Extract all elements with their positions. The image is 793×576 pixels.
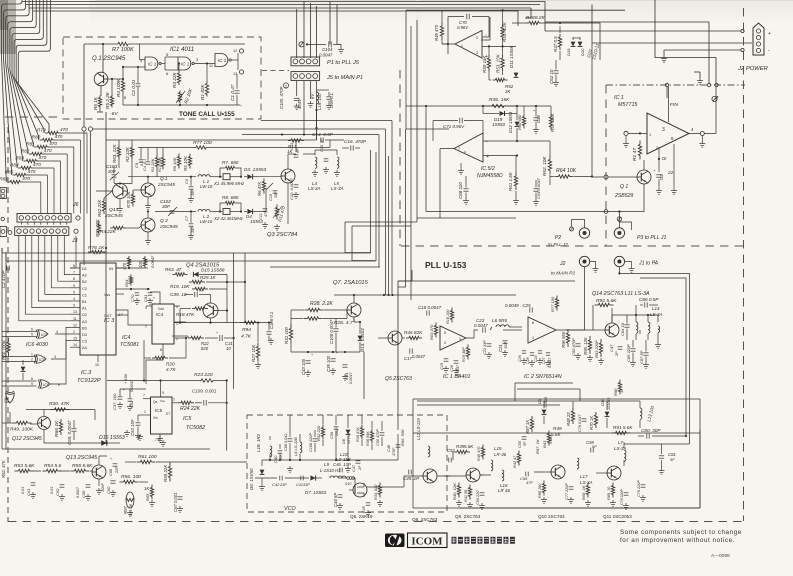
svg-text:C2: C2	[659, 174, 664, 180]
wire q7 emitter	[353, 317, 355, 322]
ground C2	[658, 188, 660, 191]
wire vertical x545	[544, 4, 546, 31]
svg-text:C66: C66	[109, 468, 113, 476]
svg-text:2SC945: 2SC945	[157, 182, 175, 187]
resistor R77 100	[196, 146, 206, 149]
svg-text:L8 LS-11B: L8 LS-11B	[293, 437, 298, 456]
svg-text:1K: 1K	[144, 486, 149, 491]
svg-text:LS-3A: LS-3A	[614, 446, 626, 451]
svg-text:C22 33P: C22 33P	[483, 340, 487, 355]
connector J3	[15, 227, 69, 236]
wire q13 nets	[98, 479, 100, 486]
wire pa out gnd stub	[701, 136, 703, 142]
wire top bus 6b	[316, 6, 318, 58]
wire vertical x531	[525, 8, 531, 18]
svg-text:B2: B2	[82, 279, 87, 284]
svg-text:R18 100: R18 100	[446, 309, 450, 324]
circle on dash x606	[604, 210, 608, 214]
jack J1	[614, 256, 624, 266]
svg-text:IC 1: IC 1	[218, 58, 227, 63]
wire q12 up	[43, 410, 45, 417]
coil L9	[330, 476, 346, 478]
svg-text:470: 470	[49, 141, 57, 146]
transistor Q6	[466, 468, 480, 482]
capacitor C108b 220P	[313, 438, 318, 440]
svg-text:R98 180: R98 180	[538, 483, 542, 498]
svg-text:IC6 4030: IC6 4030	[26, 342, 48, 348]
svg-text:5.6K: 5.6K	[549, 436, 553, 444]
svg-text:10: 10	[95, 363, 99, 367]
wire x406 frame	[405, 10, 407, 129]
capacitor C15 8P	[324, 158, 329, 160]
box bottom enclosure	[397, 399, 399, 430]
svg-text:C4 .0.1: C4 .0.1	[143, 159, 147, 171]
ground group q7	[307, 370, 309, 373]
svg-text:14: 14	[73, 343, 77, 347]
wire IC3 IN out	[116, 267, 148, 269]
svg-text:C53 15P: C53 15P	[130, 419, 135, 436]
svg-text:NJM4558D: NJM4558D	[477, 173, 503, 179]
svg-text:LS-3A: LS-3A	[331, 186, 343, 191]
wire q1 base	[608, 176, 637, 178]
svg-text:Q13: Q13	[109, 207, 119, 213]
capacitor C45	[366, 502, 370, 504]
wire q3 emitter	[287, 183, 289, 224]
svg-text:+: +	[336, 351, 338, 355]
capacitor C106 0.1	[266, 331, 271, 333]
resistor R48 8.2K	[526, 22, 529, 24]
svg-text:30P: 30P	[162, 204, 170, 209]
wire bottom box	[412, 399, 414, 508]
svg-text:R53. 15K: R53. 15K	[496, 53, 501, 73]
wire c37 net	[119, 389, 121, 396]
svg-text:C47: C47	[352, 464, 356, 472]
svg-text:+ 100: + 100	[123, 373, 128, 384]
svg-text:C49. 1P: C49. 1P	[403, 476, 419, 481]
capacitor C39 10	[194, 292, 196, 297]
terminal circle J3 right	[74, 229, 78, 233]
svg-text:C44 6P: C44 6P	[333, 493, 338, 507]
resistor R18b	[451, 308, 453, 311]
resistor R32 220	[322, 425, 324, 428]
svg-text:R40. 12K: R40. 12K	[452, 483, 457, 500]
wire ic2 out	[556, 267, 585, 330]
resistor R36 56K	[371, 429, 373, 432]
svg-text:2: 2	[476, 36, 478, 40]
svg-text:D3. 1S553: D3. 1S553	[244, 167, 267, 172]
wire Q1 left vert	[83, 44, 85, 119]
resistor R63 22K	[118, 145, 120, 148]
svg-text:R1 22K: R1 22K	[150, 158, 155, 172]
capacitor C49	[533, 117, 538, 119]
wire pa out up	[715, 87, 717, 134]
wire J1 stub	[625, 262, 632, 267]
svg-text:4.7K: 4.7K	[241, 334, 252, 340]
ground ic3 cluster	[136, 298, 138, 301]
capacitor C87 8P	[643, 352, 648, 354]
wire top bus 2	[26, 4, 541, 6]
terminal circle on dash 3	[715, 83, 718, 86]
resistor R36 15K	[492, 104, 504, 107]
svg-text:4: 4	[464, 150, 466, 154]
wire conn drop 2	[303, 81, 305, 135]
grounds bottom	[458, 500, 460, 503]
svg-text:IC.5/2: IC.5/2	[481, 166, 495, 172]
svg-text:1SV68: 1SV68	[347, 433, 351, 444]
coil L14c small	[658, 326, 660, 332]
svg-text:IC 1: IC 1	[148, 62, 157, 67]
wires J6 to J3	[20, 222, 22, 224]
terminal circle on dash 2	[707, 83, 710, 86]
svg-text:30P: 30P	[108, 169, 116, 174]
svg-text:R45 470: R45 470	[434, 24, 439, 41]
svg-text:1: 1	[144, 410, 146, 414]
label kanji company name	[452, 537, 457, 544]
svg-text:R26. 4.7: R26. 4.7	[334, 320, 353, 326]
svg-text:5: 5	[162, 391, 164, 395]
capacitor C50 470P	[575, 343, 580, 345]
resistor R96 56K	[567, 329, 569, 333]
resistor R92 5.6K	[595, 304, 599, 306]
svg-text:R36 56K: R36 56K	[366, 431, 370, 446]
capacitor C49 1P	[408, 470, 410, 475]
svg-text:2: 2	[656, 146, 658, 150]
svg-text:J6: J6	[72, 202, 79, 208]
capacitor C23 0.0047	[482, 327, 484, 332]
svg-text:Q7. 2SA1015: Q7. 2SA1015	[333, 280, 369, 286]
wire - to ground	[663, 50, 665, 56]
svg-text:12: 12	[73, 323, 77, 327]
svg-text:R70 1K: R70 1K	[589, 416, 594, 430]
resistor R57 6.8K	[550, 114, 552, 117]
wire Q1 collector	[102, 44, 104, 73]
svg-text:D16 1S553: D16 1S553	[99, 435, 125, 441]
coil L14b	[648, 322, 650, 333]
capacitor C43 100	[305, 360, 310, 362]
svg-text:J5 to MAIN P1: J5 to MAIN P1	[326, 75, 363, 81]
coil L5 LS-3A	[337, 157, 339, 168]
capacitor C34 0.0047	[342, 364, 347, 366]
svg-text:33P: 33P	[303, 483, 310, 487]
svg-text:Q3 2SC784: Q3 2SC784	[267, 232, 298, 238]
capacitor C7 30P	[189, 223, 194, 225]
wire q10 base	[534, 471, 551, 473]
transistor Q1 2SB529	[637, 170, 651, 184]
grounds mixer	[445, 366, 447, 369]
wires IC4-IC5 net	[146, 350, 163, 368]
svg-text:Q10 2SC763: Q10 2SC763	[538, 514, 565, 519]
transistor Q1b	[141, 183, 155, 197]
svg-text:12: 12	[233, 49, 237, 53]
svg-text:J1 to PA: J1 to PA	[638, 261, 659, 267]
frame dash tone to J5	[262, 70, 289, 72]
varistor R57 331-08	[126, 492, 134, 508]
svg-text:R5 2.2K: R5 2.2K	[105, 91, 110, 109]
svg-text:R9 10K: R9 10K	[172, 157, 177, 171]
bus wire bundle top-left	[2, 0, 23, 182]
capacitor C70	[466, 14, 468, 20]
wire rail y120	[261, 120, 392, 122]
svg-text:R54 5.6: R54 5.6	[44, 463, 61, 469]
svg-text:C13: C13	[290, 142, 294, 150]
wire q7 rail y295	[334, 294, 516, 296]
svg-text:IC 3: IC 3	[104, 318, 115, 324]
svg-text:OUT: OUT	[104, 314, 112, 318]
resistor R24 22K	[178, 402, 181, 404]
ground near dash	[699, 78, 701, 81]
capacitor C70b	[135, 292, 139, 294]
terminal circle J6 right	[76, 216, 80, 220]
wire r47 net	[559, 26, 561, 33]
svg-text:470: 470	[22, 176, 30, 181]
svg-text:C80. 30P: C80. 30P	[641, 428, 661, 433]
svg-text:LS-3A: LS-3A	[308, 186, 320, 191]
capacitor C2 22	[656, 174, 662, 176]
svg-text:0.01: 0.01	[21, 487, 25, 494]
resistor R5 10K	[189, 154, 191, 157]
resistor 100 vert	[144, 256, 146, 258]
svg-text:Dr: Dr	[662, 156, 667, 161]
svg-text:R68. 1K: R68. 1K	[581, 485, 586, 500]
capacitor C14 0.5P	[320, 137, 322, 142]
coil L16 LR-46	[502, 470, 504, 481]
svg-text:1S553: 1S553	[544, 396, 548, 408]
fet Q8 2SK19	[353, 483, 367, 497]
capacitor C86 0.5P	[644, 302, 646, 307]
wire pa in pin1	[608, 132, 626, 134]
svg-text:P1 to PLL J5: P1 to PLL J5	[327, 60, 360, 66]
wire r61 r64 link	[515, 191, 517, 198]
svg-text:R47 0.5: R47 0.5	[553, 36, 558, 52]
svg-text:J2: J2	[559, 261, 566, 267]
svg-text:R25 1K: R25 1K	[200, 275, 217, 280]
svg-text:D11 1S558: D11 1S558	[509, 45, 514, 68]
resistor R35 47K	[361, 425, 363, 428]
svg-text:R51. 6.2K: R51. 6.2K	[502, 21, 507, 42]
resistor R78 10K	[132, 192, 134, 195]
svg-text:D6. 1SV50: D6. 1SV50	[249, 468, 254, 490]
svg-text:Vss: Vss	[104, 293, 110, 297]
wire r56b net	[139, 481, 148, 483]
svg-text:R86: R86	[0, 177, 8, 182]
svg-text:C104: C104	[322, 47, 333, 52]
svg-text:P3 to PLL J1: P3 to PLL J1	[637, 235, 666, 241]
wire net y449	[2, 448, 210, 450]
svg-text:IC 1: IC 1	[181, 62, 190, 67]
wire top bus 5	[303, 1, 305, 58]
svg-text:TC5082: TC5082	[186, 425, 205, 431]
crystal X2	[210, 211, 222, 213]
capacitor C53 15P	[136, 422, 141, 424]
capacitor C62b	[60, 484, 65, 486]
wires ic2 bottom caps	[522, 350, 526, 352]
wire d4 to q3	[258, 211, 266, 213]
svg-text:1: 1	[649, 133, 651, 137]
coil L18	[270, 446, 272, 457]
resistor R65 47	[173, 273, 176, 275]
resistor R39 5.6K	[454, 451, 457, 453]
svg-text:010: 010	[345, 482, 352, 486]
svg-text:Q.1 2SC945: Q.1 2SC945	[92, 56, 126, 62]
svg-text:IC5: IC5	[155, 408, 163, 413]
jack J2	[579, 256, 589, 266]
svg-text:C47: C47	[609, 344, 614, 352]
svg-text:R96. 56K: R96. 56K	[400, 429, 405, 446]
svg-text:R53 5.6K: R53 5.6K	[14, 463, 35, 469]
coil L8 LS-11B	[300, 442, 302, 453]
wire mid bus up1	[345, 222, 370, 253]
svg-text:R56. 100: R56. 100	[121, 474, 141, 480]
diode D8 1SV68	[346, 430, 351, 435]
svg-text:0.0047: 0.0047	[349, 371, 353, 384]
frame dashed right	[743, 8, 745, 521]
svg-text:+: +	[123, 388, 125, 392]
resistor R87 1K	[531, 416, 533, 419]
svg-text:11: 11	[209, 64, 213, 68]
svg-text:10P: 10P	[279, 453, 283, 460]
capacitor C77 220P	[569, 486, 574, 488]
coil L17 LS-3A	[577, 458, 579, 469]
svg-text:R92 5.6K: R92 5.6K	[596, 298, 617, 304]
capacitor C59 6P	[590, 448, 592, 453]
svg-text:470: 470	[44, 148, 52, 153]
transistor Q7	[347, 303, 361, 317]
wire rail y322	[174, 322, 272, 324]
resistor R40 12K	[458, 483, 460, 486]
resistor R19b 38P	[467, 345, 469, 348]
wire diodes net	[572, 37, 574, 40]
svg-text:R8. 680: R8. 680	[222, 195, 239, 200]
resistor R45 470	[441, 22, 443, 26]
wire pa out	[689, 133, 700, 135]
svg-text:C35 100: C35 100	[326, 355, 331, 372]
wire inner box right	[699, 399, 701, 508]
svg-text:R63. 47: R63. 47	[165, 267, 182, 272]
diode pair	[571, 42, 576, 47]
wire gnd stub on dash	[699, 72, 701, 78]
wire q7 down long	[359, 342, 361, 352]
wire q2 collector	[147, 212, 149, 219]
svg-text:5: 5	[31, 333, 33, 337]
svg-text:Qa: Qa	[153, 400, 157, 404]
svg-text:R4 100K: R4 100K	[116, 78, 121, 97]
svg-text:R61 100: R61 100	[138, 454, 157, 460]
svg-text:470P: 470P	[392, 447, 396, 456]
transistor Q14	[605, 323, 619, 337]
diode D7 1S553	[310, 475, 315, 480]
svg-text:C108 220P: C108 220P	[309, 433, 313, 452]
svg-text:C62: C62	[55, 488, 60, 496]
svg-text:R3 22K: R3 22K	[172, 71, 177, 88]
frame PLL left dashed	[399, 70, 401, 246]
capacitor C78 220P	[624, 492, 629, 494]
svg-text:C41: C41	[296, 483, 303, 487]
wire q3 top net	[287, 154, 289, 169]
svg-text:R48: R48	[526, 15, 535, 20]
circled 2 mark	[283, 83, 288, 88]
resistor R19 10K	[192, 288, 195, 290]
svg-text:R65: R65	[145, 493, 150, 501]
resistor R98 180	[543, 481, 545, 484]
capacitor C108 0.0047	[333, 328, 338, 330]
frame dashed left vertical	[7, 117, 9, 522]
svg-text:+: +	[533, 109, 535, 113]
svg-text:L6 5R6: L6 5R6	[492, 318, 508, 323]
diode D16 1S553	[101, 440, 107, 446]
wire g2-g3	[194, 63, 215, 65]
ground at J2 minus	[663, 56, 665, 59]
transistor Q9	[423, 469, 437, 483]
svg-text:Q11 2SC2053: Q11 2SC2053	[603, 514, 632, 519]
svg-text:LR 46: LR 46	[498, 488, 510, 493]
svg-text:5: 5	[73, 290, 75, 294]
svg-text:L9: L9	[324, 462, 329, 467]
wire vco rail top	[262, 459, 398, 461]
wire l6 to ic2	[503, 329, 522, 331]
svg-text:470: 470	[38, 155, 46, 160]
resistor R62 10K	[549, 156, 551, 160]
capacitor C103 30P trimmer	[112, 174, 117, 176]
wire right rail 2	[619, 273, 689, 444]
wire q14 collector top	[611, 308, 613, 323]
svg-text:R49: R49	[553, 426, 562, 431]
box TONE CALL U-155	[63, 37, 261, 119]
connector left edge small2	[0, 227, 7, 237]
svg-text:9: 9	[31, 382, 33, 386]
svg-text:+: +	[216, 331, 218, 335]
capacitor C52	[128, 398, 133, 400]
wire left col down	[1, 410, 3, 449]
wire stage nets	[437, 475, 451, 477]
resistor R22 820	[188, 337, 191, 339]
svg-text:IC4: IC4	[156, 312, 164, 317]
svg-text:C71 0.96V: C71 0.96V	[443, 124, 465, 129]
diode D13 1S553c	[358, 336, 363, 341]
svg-text:M57715: M57715	[618, 102, 637, 108]
svg-text:X1 45.996 MHz: X1 45.996 MHz	[213, 181, 245, 186]
svg-text:R19. 10K: R19. 10K	[170, 284, 190, 289]
svg-text:R63. 22K: R63. 22K	[112, 143, 117, 163]
svg-text:R64 10K: R64 10K	[556, 168, 577, 174]
coil L6 5R6	[496, 325, 509, 327]
svg-text:L7: L7	[618, 440, 623, 445]
svg-text:1: 1	[532, 336, 534, 340]
capacitor C47b	[356, 460, 361, 462]
resistor R13 10K	[162, 155, 164, 158]
resistor R50 15K	[488, 55, 490, 58]
wire opamp1 minus	[482, 36, 489, 38]
capacitor C67 0.001	[177, 496, 182, 498]
wire rail y383	[515, 382, 573, 384]
svg-text:2: 2	[285, 85, 287, 89]
svg-text:-6V: -6V	[110, 111, 118, 117]
coil L13 100	[640, 408, 642, 419]
svg-text:C42: C42	[272, 482, 280, 487]
wire x426 top link	[425, 106, 427, 110]
svg-text:FIN: FIN	[670, 102, 678, 108]
svg-text:R45 470: R45 470	[477, 446, 481, 461]
svg-text:R13 10K: R13 10K	[158, 157, 162, 172]
svg-text:R58 680: R58 680	[517, 114, 522, 130]
wire bottom rail	[460, 507, 700, 509]
wire opamp1 plus rail	[482, 45, 516, 47]
wire gate d out	[9, 412, 11, 423]
connector J6	[17, 214, 71, 223]
svg-text:C84 10: C84 10	[620, 322, 625, 336]
wire Q1 base	[108, 78, 123, 80]
svg-text:7: 7	[458, 147, 460, 151]
wire r61 net	[156, 461, 247, 463]
